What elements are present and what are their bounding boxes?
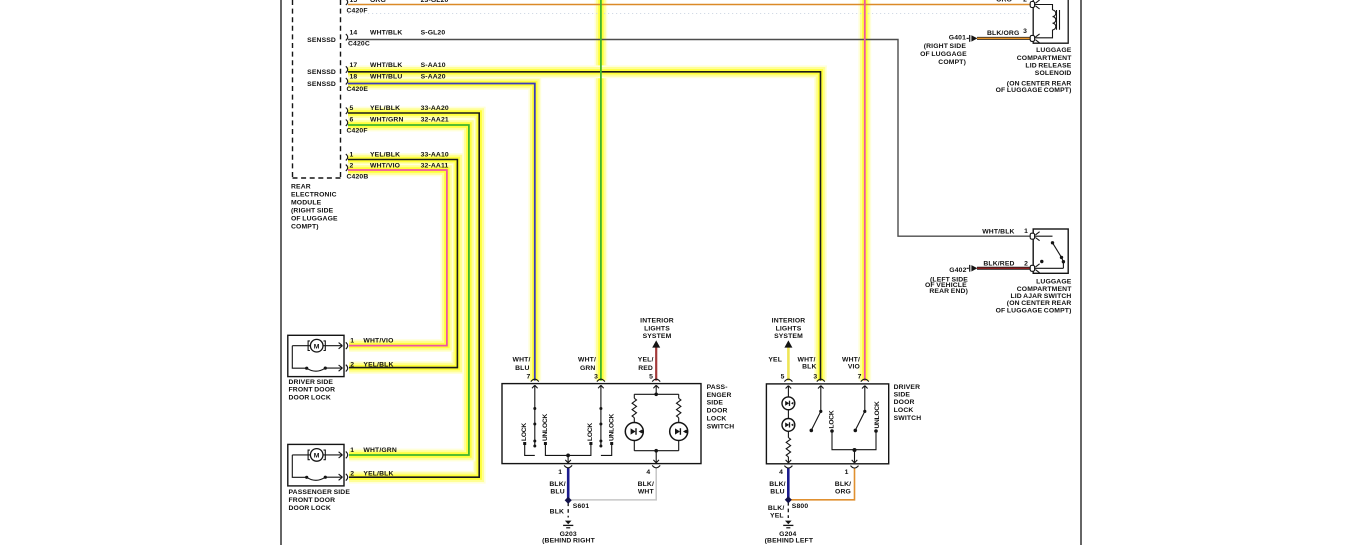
passenger switch LED bottom bus to pin 4 (634, 449, 678, 463)
svg-text:33-AA10: 33-AA10 (421, 152, 449, 159)
driver front door lock pin 1 exit arrow and bracket (339, 342, 348, 349)
svg-text:ORG: ORG (996, 0, 1012, 4)
svg-text:2: 2 (350, 361, 354, 368)
driver switch unlock contact (pin 7) (854, 410, 878, 450)
connector label C420F lower (347, 128, 368, 135)
svg-text:REAR: REAR (291, 184, 311, 191)
wire BLK/RED (ground G402 to lid ajar switch pin 2) (977, 267, 1031, 270)
svg-text:BLU: BLU (550, 489, 564, 496)
passenger front door lock pin 2 exit arrow and bracket (339, 474, 348, 481)
svg-text:REAR END): REAR END) (929, 288, 968, 295)
wire label BLK/RED (ajar switch pin 2) (983, 261, 1028, 268)
svg-text:WHT: WHT (638, 489, 655, 496)
svg-text:OF LUGGAGE: OF LUGGAGE (291, 216, 338, 223)
svg-text:1: 1 (845, 469, 849, 476)
svg-text:PASSENGER SIDE: PASSENGER SIDE (289, 489, 351, 496)
passenger switch pin 1 bracket (564, 465, 572, 467)
driver side door lock switch box (766, 384, 888, 464)
passenger switch LED 1 (625, 423, 643, 441)
passenger switch pin 7 bracket and arrow (531, 379, 539, 392)
wire WHT/VIO vertical halo (to driver switch pin 7) (858, 0, 871, 381)
passenger switch LOCK/UNLOCK labels (521, 414, 616, 441)
wire WHT/BLK S-AA10 (module pin 17 to driver switch pin 3) (348, 72, 821, 381)
svg-text:WHT/VIO: WHT/VIO (363, 338, 393, 345)
passenger switch pin 5 bracket and arrow (652, 379, 660, 392)
svg-text:BLU: BLU (770, 489, 784, 496)
svg-text:PASS-: PASS- (707, 384, 728, 391)
svg-text:7: 7 (858, 373, 862, 380)
passenger switch ladder 2 (pin 3) (568, 393, 613, 456)
driver switch pin 3 bracket and arrow (817, 379, 825, 411)
ground label G204 (765, 531, 814, 544)
svg-text:15: 15 (350, 0, 358, 4)
module pin 2 labels (350, 163, 449, 170)
svg-text:(ON CENTER REAR: (ON CENTER REAR (1007, 300, 1072, 307)
module pin 5 labels (350, 105, 449, 112)
svg-text:YEL/BLK: YEL/BLK (363, 470, 393, 477)
svg-text:2: 2 (350, 470, 354, 477)
svg-text:WHT/BLK: WHT/BLK (982, 229, 1014, 236)
module top pin labels (cut off) (350, 0, 449, 4)
wire WHT/GRN vertical core (600, 0, 602, 381)
svg-text:FRONT DOOR: FRONT DOOR (289, 387, 336, 394)
svg-text:INTERIOR: INTERIOR (772, 318, 806, 325)
driver front door lock pin 2 exit arrow and bracket (339, 365, 348, 372)
wire label WHT/BLK (ajar switch pin 1) (982, 228, 1028, 235)
wire WHT/BLU S-AA20 (module pin 18 to passenger switch pin 7) (348, 84, 535, 381)
svg-text:18: 18 (350, 74, 358, 81)
svg-text:C420B: C420B (347, 174, 369, 181)
svg-text:COMPARTMENT: COMPARTMENT (1017, 55, 1072, 62)
svg-text:WHT/GRN: WHT/GRN (370, 117, 404, 124)
svg-text:YEL/BLK: YEL/BLK (370, 105, 400, 112)
svg-text:BLK/: BLK/ (768, 505, 784, 512)
svg-text:LIGHTS: LIGHTS (644, 326, 670, 333)
svg-text:4: 4 (779, 469, 783, 476)
wire BLK/ORG (ground G401 to solenoid pin 3) (977, 37, 1031, 40)
driver front door lock pin labels (350, 338, 393, 369)
svg-text:14: 14 (350, 30, 358, 37)
passenger front door lock pin 1 exit arrow and bracket (339, 452, 348, 459)
svg-text:DOOR: DOOR (707, 408, 728, 415)
svg-text:ORG: ORG (835, 489, 851, 496)
wire label BLK/BLU (passenger) (549, 481, 565, 496)
svg-text:WHT/BLK: WHT/BLK (370, 62, 402, 69)
module pin 6 bracket (346, 120, 348, 126)
wire label BLK/WHT (passenger) (638, 481, 655, 496)
passenger switch LED branch resistors (632, 393, 681, 451)
interior lights system label (passenger) (640, 318, 674, 341)
svg-text:BLK/: BLK/ (769, 481, 785, 488)
passenger switch common junction to pin 1 (565, 454, 571, 463)
passenger front door lock motor M (308, 449, 325, 462)
svg-text:LOCK: LOCK (587, 423, 594, 441)
interior lights system label (driver) (772, 318, 806, 341)
svg-text:LID AJAR SWITCH: LID AJAR SWITCH (1010, 293, 1071, 300)
wire WHT/GRN vertical halo (to passenger switch pin 3) (595, 0, 608, 381)
svg-text:G402: G402 (949, 267, 966, 274)
wire BLK/ORG (driver switch pin 1 to splice S800) (791, 468, 855, 500)
svg-text:SENSSD: SENSSD (307, 37, 336, 44)
wire label BLK/ORG (driver) (835, 481, 851, 496)
svg-text:SYSTEM: SYSTEM (774, 333, 803, 340)
svg-text:BLK/: BLK/ (549, 481, 565, 488)
svg-text:17: 17 (350, 62, 358, 69)
luggage compartment lid ajar switch label (996, 279, 1073, 315)
splice S800 (785, 496, 792, 503)
splice S601 (565, 497, 572, 504)
svg-text:BLK/: BLK/ (638, 481, 654, 488)
svg-text:3: 3 (1023, 28, 1027, 35)
svg-text:7: 7 (526, 373, 530, 380)
driver switch LOCK/UNLOCK labels (829, 401, 881, 428)
wire YEL/RED (interior lights to passenger switch pin 5) (655, 347, 657, 380)
svg-text:UNLOCK: UNLOCK (542, 414, 549, 441)
splice label S601 (573, 503, 590, 510)
svg-text:32-AA21: 32-AA21 (421, 117, 449, 124)
svg-text:SWITCH: SWITCH (707, 424, 735, 431)
svg-text:1: 1 (1024, 228, 1028, 235)
ground G203 symbol (563, 521, 573, 528)
svg-text:BLK/RED: BLK/RED (983, 261, 1014, 268)
module pin 6 labels (350, 117, 449, 124)
interior lights system arrow (passenger) (652, 340, 660, 347)
ground label G402 (925, 267, 968, 295)
svg-text:C420E: C420E (347, 86, 369, 93)
passenger side door lock switch box (502, 384, 701, 464)
wire WHT/VIO 32-AA11 (module pin 2 to driver door lock pin 1) (348, 170, 447, 346)
svg-text:1: 1 (558, 469, 562, 476)
solenoid pin 3 connector (1030, 34, 1039, 43)
passenger front door lock label (289, 489, 351, 512)
luggage compartment lid release solenoid box (1033, 0, 1068, 43)
svg-text:LOCK: LOCK (707, 416, 727, 423)
svg-text:ENGER: ENGER (707, 392, 732, 399)
page left border (280, 0, 282, 545)
svg-text:32-AA11: 32-AA11 (421, 163, 449, 170)
svg-text:BLK/ORG: BLK/ORG (987, 30, 1019, 37)
svg-text:DOOR LOCK: DOOR LOCK (289, 505, 331, 512)
svg-text:SENSSD: SENSSD (307, 69, 336, 76)
ground G402 symbol (967, 265, 978, 272)
svg-text:LID RELEASE: LID RELEASE (1025, 63, 1071, 70)
svg-text:S800: S800 (792, 503, 809, 510)
svg-text:YEL/: YEL/ (638, 356, 654, 363)
svg-text:6: 6 (350, 117, 354, 124)
lid ajar switch pin 2 connector (1030, 264, 1039, 273)
svg-text:OF LUGGAGE: OF LUGGAGE (920, 51, 967, 58)
passenger switch label (707, 384, 735, 431)
svg-text:FRONT DOOR: FRONT DOOR (289, 497, 336, 504)
svg-text:BLK: BLK (550, 509, 564, 516)
svg-text:33-AA20: 33-AA20 (421, 105, 449, 112)
wire label WHT/VIO (driver pin 7) (842, 356, 860, 370)
svg-text:3: 3 (594, 373, 598, 380)
connector label C420B (347, 174, 369, 181)
svg-text:C420F: C420F (347, 128, 368, 135)
driver switch pin 4 bracket (784, 466, 792, 468)
module pin 2 bracket (346, 165, 348, 171)
driver switch LED 2 (782, 419, 795, 432)
wire label WHT/GRN (passenger pin 3) (578, 356, 596, 372)
wire label YEL/RED (passenger pin 5) (638, 356, 654, 372)
connector label C420E (347, 86, 369, 93)
shield dotted line (348, 13, 1030, 15)
svg-text:UNLOCK: UNLOCK (609, 414, 616, 441)
svg-text:5: 5 (350, 105, 354, 112)
passenger switch pin 3 bracket and arrow (597, 379, 605, 392)
wire BLK (splice S601 to ground G203, dashed) (567, 503, 569, 518)
svg-text:DOOR: DOOR (894, 399, 915, 406)
svg-text:LUGGAGE: LUGGAGE (1036, 279, 1072, 286)
svg-text:WHT/: WHT/ (513, 356, 531, 363)
svg-text:S-AA20: S-AA20 (421, 74, 446, 81)
driver switch common junction to pin 1 (852, 448, 858, 463)
svg-text:1: 1 (350, 447, 354, 454)
node SENSSD 3 (307, 81, 336, 88)
passenger switch bottom pin numbers (558, 469, 650, 476)
node SENSSD 1 (307, 37, 336, 44)
module pin top (cut) connector bracket (346, 0, 348, 5)
module pin 18 labels (350, 74, 446, 81)
luggage compartment lid release solenoid label (996, 47, 1073, 94)
driver switch LED series resistor (786, 410, 792, 463)
driver switch pin 7 bracket and arrow (861, 379, 869, 411)
svg-text:M: M (314, 453, 320, 460)
svg-text:LIGHTS: LIGHTS (776, 326, 802, 333)
page right border (1080, 0, 1082, 545)
svg-text:ELECTRONIC: ELECTRONIC (291, 192, 337, 199)
svg-text:5: 5 (781, 373, 785, 380)
svg-text:COMPT): COMPT) (291, 224, 319, 231)
splice label S800 (792, 503, 809, 510)
svg-text:OF LUGGAGE COMPT): OF LUGGAGE COMPT) (996, 307, 1072, 314)
wire WHT/GRN 32-AA21 (module pin 6 to passenger door lock pin 1) (348, 125, 469, 455)
wire label BLK/YEL (driver ground lead) (768, 505, 784, 520)
svg-text:BLK: BLK (802, 364, 816, 371)
driver switch label (894, 384, 922, 422)
svg-text:LOCK: LOCK (894, 407, 914, 414)
wire YEL/BLK 33-AA10 (module pin 1 to driver door lock pin 2) (348, 160, 457, 368)
svg-text:S601: S601 (573, 503, 590, 510)
driver switch lock contact (pin 3) (810, 410, 855, 450)
svg-text:(BEHIND LEFT: (BEHIND LEFT (765, 537, 814, 544)
passenger front door lock box (288, 444, 344, 486)
wire BLK/BLU (passenger switch pin 1 to splice S601) (567, 468, 570, 501)
svg-text:COMPT): COMPT) (938, 59, 966, 66)
lid ajar switch contacts (1035, 236, 1065, 268)
wire ORG 23-GL20 (module to solenoid pin 2) (348, 4, 1031, 6)
svg-text:UNLOCK: UNLOCK (874, 401, 881, 428)
svg-text:4: 4 (646, 469, 650, 476)
svg-text:23-GL20: 23-GL20 (421, 0, 449, 4)
svg-text:MODULE: MODULE (291, 200, 322, 207)
luggage compartment lid ajar switch box (1033, 229, 1068, 273)
svg-text:C420F: C420F (347, 8, 368, 15)
wire BLK/YEL (splice S800 to ground G204, dashed) (787, 502, 789, 518)
svg-text:BLK/: BLK/ (835, 481, 851, 488)
ground G204 symbol (783, 521, 793, 528)
wire WHT/VIO vertical core (864, 0, 866, 381)
driver switch LED 1 (782, 397, 795, 410)
svg-text:OF LUGGAGE COMPT): OF LUGGAGE COMPT) (996, 87, 1072, 94)
svg-text:WHT/BLU: WHT/BLU (370, 74, 402, 81)
wire label WHT/BLK (driver pin 3) (798, 356, 817, 370)
svg-text:1: 1 (350, 338, 354, 345)
svg-text:LOCK: LOCK (829, 410, 836, 428)
svg-text:(RIGHT SIDE: (RIGHT SIDE (924, 43, 967, 50)
svg-text:SENSSD: SENSSD (307, 81, 336, 88)
svg-text:(RIGHT SIDE: (RIGHT SIDE (291, 208, 334, 215)
svg-text:VIO: VIO (848, 364, 860, 371)
svg-text:SWITCH: SWITCH (894, 415, 922, 422)
interior lights system arrow (driver) (784, 340, 792, 347)
svg-text:2: 2 (1023, 0, 1027, 4)
passenger switch pin numbers top (526, 373, 653, 380)
module pin 17 labels (350, 62, 446, 69)
svg-text:BLU: BLU (515, 365, 529, 372)
svg-text:DRIVER: DRIVER (894, 384, 921, 391)
svg-text:DOOR LOCK: DOOR LOCK (289, 394, 331, 401)
svg-text:C420C: C420C (348, 41, 370, 48)
ground label G401 (920, 35, 967, 67)
svg-text:M: M (314, 343, 320, 350)
driver front door lock label (289, 379, 336, 401)
rear electronic module dashed box (293, 0, 341, 178)
svg-text:YEL: YEL (768, 356, 782, 363)
module pin 17 bracket (346, 66, 348, 72)
wire label BLK/BLU (driver) (769, 481, 785, 496)
module pin 1 bracket (346, 154, 348, 160)
solenoid pin 2 label (cut) (996, 0, 1027, 4)
svg-text:WHT/BLK: WHT/BLK (370, 30, 402, 37)
svg-text:1: 1 (350, 152, 354, 159)
wire BLK/WHT (passenger switch pin 4 to splice S601) (571, 468, 657, 500)
wire YEL (interior lights to driver switch pin 5) (787, 347, 790, 380)
driver switch pin 1 bracket (851, 466, 859, 468)
driver front door lock motor wiring (292, 346, 342, 372)
svg-text:SIDE: SIDE (894, 392, 911, 399)
rear electronic module label (291, 184, 338, 231)
passenger front door lock pin labels (350, 447, 397, 477)
svg-text:3: 3 (813, 373, 817, 380)
svg-text:WHT/VIO: WHT/VIO (370, 163, 400, 170)
node SENSSD 2 (307, 69, 336, 76)
svg-text:S-GL20: S-GL20 (421, 30, 446, 37)
svg-text:SOLENOID: SOLENOID (1035, 70, 1072, 77)
wire label YEL (driver pin 5) (768, 356, 782, 363)
svg-text:SYSTEM: SYSTEM (643, 333, 672, 340)
driver switch pin numbers top (781, 373, 862, 380)
lid ajar switch pin 1 connector (1030, 232, 1039, 241)
wire label BLK (passenger ground lead) (550, 509, 564, 516)
svg-text:INTERIOR: INTERIOR (640, 318, 674, 325)
svg-text:LUGGAGE: LUGGAGE (1036, 47, 1072, 54)
ground label G203 (542, 531, 595, 544)
wire YEL/BLK 33-AA20 (module pin 5 to passenger door lock pin 2) (348, 113, 479, 477)
module pin 18 bracket (346, 78, 348, 84)
svg-text:YEL/BLK: YEL/BLK (370, 152, 400, 159)
svg-text:(BEHIND RIGHT: (BEHIND RIGHT (542, 537, 595, 544)
svg-text:GRN: GRN (580, 365, 596, 372)
wire label WHT/BLU (passenger pin 7) (513, 356, 531, 372)
svg-text:COMPARTMENT: COMPARTMENT (1017, 286, 1072, 293)
svg-text:WHT/GRN: WHT/GRN (363, 447, 397, 454)
passenger switch LED 2 (670, 423, 688, 441)
wire BLK/BLU (driver switch pin 4 to splice S800) (787, 468, 790, 500)
solenoid coil (1035, 5, 1060, 38)
svg-text:5: 5 (649, 373, 653, 380)
connector label C420F top (347, 8, 368, 15)
driver front door lock box (288, 335, 344, 376)
wire label BLK/ORG (solenoid) (987, 28, 1027, 37)
passenger front door lock motor wiring (292, 455, 342, 480)
svg-text:WHT/: WHT/ (578, 356, 596, 363)
svg-text:LOCK: LOCK (521, 423, 528, 441)
connector label C420C (348, 41, 370, 48)
svg-text:DRIVER SIDE: DRIVER SIDE (289, 379, 334, 386)
svg-text:G401: G401 (949, 35, 966, 42)
driver switch bottom pin numbers (779, 469, 849, 476)
ground G401 symbol (967, 35, 978, 42)
solenoid pin 2 connector (1030, 0, 1039, 9)
driver front door lock motor M (308, 339, 325, 352)
svg-text:WHT/: WHT/ (798, 356, 816, 363)
module pin 1 labels (350, 152, 449, 159)
svg-text:SIDE: SIDE (707, 400, 724, 407)
module pin 5 bracket (346, 108, 348, 114)
svg-text:2: 2 (1024, 261, 1028, 268)
svg-text:2: 2 (350, 163, 354, 170)
passenger switch ladder 1 (pin 7) (523, 393, 568, 456)
svg-text:YEL/BLK: YEL/BLK (363, 361, 393, 368)
svg-text:ORG: ORG (370, 0, 386, 4)
module pin 14 bracket (346, 34, 348, 40)
svg-text:WHT/: WHT/ (842, 356, 860, 363)
svg-text:RED: RED (638, 365, 653, 372)
passenger switch pin 4 bracket (652, 465, 660, 467)
module pin 14 labels (350, 30, 446, 37)
svg-text:S-AA10: S-AA10 (421, 62, 446, 69)
wire WHT/BLK S-GL20 (module pin 14 to lid ajar switch pin 1) (348, 40, 1031, 237)
driver switch pin 5 bracket and arrow (784, 379, 792, 397)
svg-text:YEL: YEL (770, 513, 784, 520)
